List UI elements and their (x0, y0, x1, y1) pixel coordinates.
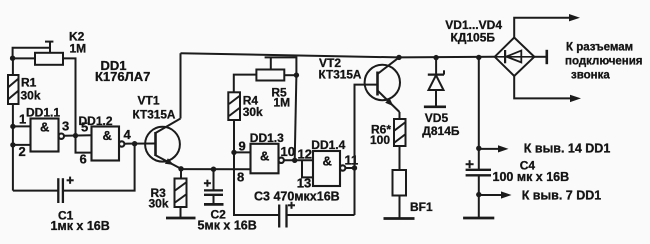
wire K2 left terminal (13, 57, 35, 59)
wire arrow to pin 14 (479, 148, 501, 150)
svg-text:BF1: BF1 (410, 200, 433, 214)
logic gate DD1.4 (313, 151, 345, 186)
resistor R4 (228, 92, 240, 120)
wire VT1 collector riser (180, 53, 182, 118)
wire bridge top output arrow (514, 18, 570, 38)
wire VT1 emitter to R3 (180, 169, 182, 179)
node C2 junction (211, 167, 216, 172)
svg-text:1мк х 16В: 1мк х 16В (51, 219, 110, 233)
wire VD5 top (435, 58, 437, 75)
node pin1 junction (10, 124, 15, 129)
wire C4 branch lower (478, 175, 480, 218)
svg-text:DD1.3: DD1.3 (250, 131, 284, 145)
svg-text:5мк х 16В: 5мк х 16В (198, 219, 257, 233)
wire emitter rail to DD1.3 pin 8 (181, 168, 251, 170)
resistor R5 (trimmer body) (256, 57, 284, 80)
wire C2 bottom (213, 195, 215, 205)
svg-text:К разъемам: К разъемам (566, 42, 633, 54)
wire K2 wiper loop (13, 48, 50, 58)
wire VT2 emitter to R6 (399, 112, 401, 119)
svg-text:К176ЛА7: К176ЛА7 (95, 69, 150, 84)
resistor K2 (trimmer body) (35, 42, 63, 65)
wire BF1 bottom (399, 196, 401, 219)
logic gate DD1.2 (92, 127, 125, 161)
wire R5 left to R4 top (234, 75, 257, 93)
svg-text:звонка: звонка (571, 70, 610, 82)
wire R3 bottom (180, 207, 182, 218)
node pin7 junction (476, 192, 481, 197)
svg-text:3: 3 (62, 119, 69, 134)
label + (C3 polarity) (288, 202, 295, 209)
wire C1 right up to VT1 base (63, 144, 135, 191)
svg-text:100 мк х 16В: 100 мк х 16В (493, 170, 570, 184)
svg-text:&: & (260, 149, 269, 164)
wire DD1.4 output (345, 167, 354, 169)
wire pin 13 link (302, 160, 313, 177)
wire DD1.4 output to VT2 base (355, 85, 378, 215)
svg-text:К выв. 7 DD1: К выв. 7 DD1 (522, 189, 602, 203)
svg-text:8: 8 (237, 170, 244, 185)
wire C4 branch upper (478, 57, 480, 169)
svg-text:DD1.1: DD1.1 (26, 106, 60, 120)
transistor VT2 (365, 57, 400, 112)
wire C3 right (287, 214, 355, 216)
ground (BF1) (384, 217, 415, 220)
wire R5 feedback down (295, 75, 297, 160)
svg-text:С3 470мкх16В: С3 470мкх16В (254, 190, 340, 204)
svg-text:&: & (103, 128, 112, 143)
wire left rail R1 to C1 (12, 104, 14, 191)
svg-text:4: 4 (124, 127, 132, 142)
wire bridge right stub (534, 56, 545, 58)
svg-text:К выв. 14 DD1: К выв. 14 DD1 (524, 142, 611, 156)
svg-text:КТ315А: КТ315А (319, 67, 362, 81)
svg-text:КД105Б: КД105Б (451, 31, 496, 45)
node DD1.3 output junction (292, 158, 297, 163)
node pin14 junction (476, 146, 481, 151)
node VT2 collector junction (396, 55, 401, 60)
node VT1 emitter junction (178, 166, 183, 171)
capacitor C4 (466, 170, 491, 176)
svg-text:100: 100 (370, 133, 390, 147)
label + (C2 polarity) (204, 180, 211, 187)
wire K2 right to DD1.2 inputs (63, 58, 76, 135)
label + (C1 polarity) (67, 177, 74, 184)
svg-text:Д814Б: Д814Б (422, 124, 460, 138)
resistor R6 (394, 119, 406, 146)
capacitor C1 (58, 178, 63, 203)
node DD1.2 input junction (73, 133, 78, 138)
zener diode VD5 (428, 70, 444, 90)
svg-text:&: & (323, 154, 332, 169)
svg-text:DD1.4: DD1.4 (311, 138, 345, 152)
svg-text:подключения: подключения (565, 56, 643, 68)
logic gate DD1.3 (251, 144, 284, 174)
wire C1 left (13, 190, 58, 192)
wire VD5 bottom (435, 90, 437, 107)
svg-text:6: 6 (80, 152, 87, 167)
terminal bar (bell connector) (545, 50, 548, 64)
wire pin 1 (13, 125, 31, 127)
transistor VT1 (145, 119, 181, 169)
wire pin 9 (234, 151, 251, 153)
node A (junction K2/R1) (10, 56, 15, 61)
node C1 feedback junction (132, 141, 137, 146)
svg-text:9: 9 (239, 139, 246, 154)
wire DD1.1 output to DD1.2 input (64, 134, 92, 137)
svg-text:11: 11 (345, 153, 359, 168)
node DD1.4 output junction (352, 165, 357, 170)
wire DD1.3 output to DD1.4 (284, 159, 313, 161)
wire DD1.2 output to VT1 base (124, 143, 155, 145)
svg-text:30k: 30k (149, 197, 169, 211)
buzzer BF1 (393, 170, 407, 196)
node R5 right junction (294, 72, 299, 77)
svg-text:10: 10 (281, 144, 295, 159)
wire bridge bottom output arrow (514, 76, 571, 98)
op-amp gate DD1.1 (31, 119, 65, 152)
svg-text:30k: 30k (21, 89, 41, 103)
svg-text:VT1: VT1 (138, 94, 160, 108)
ground (C2) (204, 203, 224, 206)
node pin 9 junction (231, 150, 236, 155)
wire arrow to pin 7 (479, 194, 504, 196)
wire R5 wiper loop (265, 57, 297, 75)
wire top supply rail (181, 53, 495, 57)
wire R4 bottom to C3 (234, 120, 279, 215)
svg-text:1M: 1M (70, 42, 87, 56)
ground (C4) (463, 217, 494, 220)
wire C3 plates left (279, 205, 286, 228)
node pin2 junction (10, 142, 15, 147)
ground (R3) (166, 217, 196, 220)
wire R6 to BF1 (399, 146, 401, 170)
svg-text:VD5: VD5 (425, 111, 449, 125)
wire pin 2 (13, 144, 31, 146)
diode bridge VD1...VD4 (495, 38, 535, 77)
svg-text:2: 2 (19, 144, 26, 159)
svg-text:12: 12 (298, 147, 312, 162)
svg-text:КТ315А: КТ315А (133, 108, 176, 122)
capacitor C2 (204, 190, 223, 194)
svg-text:13: 13 (297, 176, 311, 191)
svg-text:30k: 30k (243, 105, 263, 119)
ground (VD5) (424, 106, 446, 109)
resistor R3 (175, 179, 187, 208)
label + (C4 polarity) (466, 160, 474, 168)
svg-text:R1: R1 (21, 76, 37, 90)
svg-text:1M: 1M (273, 96, 290, 110)
wire pin 6 link (76, 136, 92, 153)
node VD5 junction (433, 55, 438, 60)
node C4 top junction (476, 55, 481, 60)
wire R5 right (284, 74, 296, 76)
resistor R1 (8, 75, 19, 104)
wire C2 top (213, 169, 215, 190)
wire R1 top (12, 58, 14, 75)
svg-text:&: & (40, 120, 49, 135)
